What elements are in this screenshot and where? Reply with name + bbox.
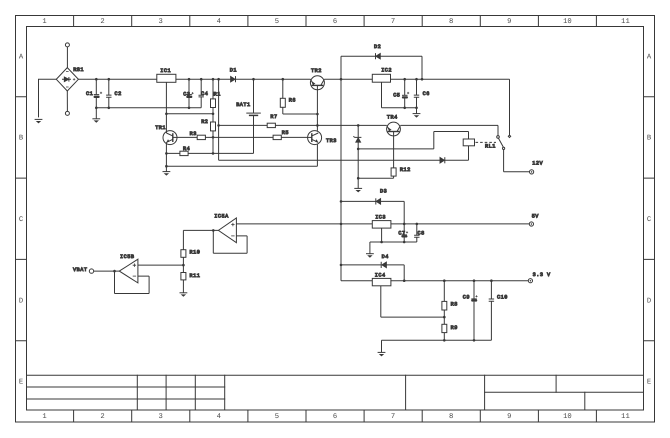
- svg-text:C9: C9: [463, 295, 470, 301]
- resistor R1: [211, 79, 216, 114]
- svg-text:R2: R2: [201, 119, 208, 125]
- wire: TR4 base to R12: [393, 136, 395, 168]
- wire: IC4 output rail to 3.3V terminal: [391, 279, 528, 282]
- wire: relay common to 12V terminal: [504, 150, 530, 172]
- svg-text:D3: D3: [380, 189, 387, 195]
- wire: TR4 rail (x218 tap to relay) with R7 inline: [275, 124, 498, 135]
- svg-text:R5: R5: [282, 130, 289, 136]
- wire: main vertical distribution (x=341): [340, 79, 343, 281]
- svg-text:C7: C7: [398, 230, 405, 236]
- svg-text:IC1: IC1: [160, 68, 171, 74]
- wire: R6 bottom to TR2 base: [283, 113, 319, 116]
- wire: IC5B output to VBAT terminal: [94, 270, 120, 272]
- svg-text:9: 9: [507, 413, 511, 421]
- wire: TR2 base line down to TR3 collector: [316, 90, 319, 131]
- capacitor C6: [414, 79, 419, 108]
- svg-text:C5: C5: [393, 92, 400, 98]
- svg-text:TR4: TR4: [387, 115, 398, 121]
- svg-text:C2: C2: [115, 91, 122, 97]
- svg-text:BAT1: BAT1: [236, 102, 250, 108]
- capacitor C5 (polarized): [402, 79, 409, 108]
- op-amp IC5A (buffer): [218, 218, 236, 243]
- resistor R5: [273, 135, 281, 139]
- capacitor C2: [106, 79, 111, 108]
- svg-text:11: 11: [621, 413, 630, 421]
- svg-text:R6: R6: [289, 97, 296, 103]
- svg-text:R7: R7: [270, 114, 277, 120]
- regulator IC2: [372, 74, 390, 82]
- svg-text:C8: C8: [418, 230, 425, 236]
- node: 3.3V output terminal: [528, 279, 532, 283]
- svg-text:C1: C1: [86, 91, 93, 97]
- wire: R12 bottom to zener ground line: [358, 177, 393, 179]
- svg-text:A: A: [19, 53, 24, 61]
- wire: switched line y=160 to relay diode: [219, 159, 440, 161]
- svg-text:R11: R11: [190, 273, 201, 279]
- svg-text:VBAT: VBAT: [73, 267, 87, 273]
- wire: IC3 output rail to 5V terminal: [391, 223, 529, 226]
- wire: IC5B feedback loop: [113, 270, 149, 294]
- ground (3.3V section): [378, 352, 386, 356]
- wire: R5 to TR3 base: [281, 136, 307, 138]
- diode D2 (bypass over IC2): [341, 53, 422, 79]
- ground (zener): [354, 188, 362, 192]
- wire: bridge left to ground: [39, 79, 57, 117]
- resistor R8: [442, 281, 447, 317]
- wire: IC2 adj pin to C5/C6 bottoms: [382, 82, 418, 109]
- svg-text:3: 3: [159, 18, 163, 26]
- transistor TR1: [163, 131, 177, 145]
- wire: vertical feed corner into IC4: [341, 280, 372, 282]
- ground (IC3): [366, 254, 374, 258]
- svg-text:R1: R1: [214, 91, 221, 97]
- svg-text:7: 7: [391, 413, 395, 421]
- svg-text:C6: C6: [423, 91, 430, 97]
- wire: IC4 adj pin to R8/R9 node: [381, 286, 446, 319]
- wire: TR1 collector up to IC1 adj node: [165, 114, 167, 133]
- node: 12V output terminal: [530, 170, 534, 174]
- transistor TR3: [308, 131, 322, 145]
- svg-text:D: D: [647, 297, 651, 305]
- diode D1: [231, 76, 236, 82]
- resistor R3: [197, 135, 205, 139]
- resistor R6: [280, 79, 285, 114]
- svg-text:9: 9: [507, 18, 511, 26]
- svg-text:E: E: [19, 379, 23, 387]
- svg-text:5: 5: [275, 413, 279, 421]
- regulator IC4: [372, 278, 391, 285]
- wire: IC1 adj pin down and right to R1/R2 node: [165, 82, 214, 115]
- ground (IC2 filter): [413, 114, 421, 118]
- svg-text:C4: C4: [201, 91, 208, 97]
- wire: IC5A output to R10: [183, 230, 218, 249]
- diode D4 (bypass over IC4): [341, 262, 404, 281]
- svg-text:4: 4: [217, 18, 221, 26]
- svg-text:RS1: RS1: [73, 67, 84, 73]
- svg-text:D2: D2: [374, 44, 381, 50]
- svg-text:IC2: IC2: [381, 68, 392, 74]
- svg-text:D: D: [19, 297, 23, 305]
- svg-text:12V: 12V: [532, 161, 543, 167]
- svg-text:E: E: [647, 379, 651, 387]
- wire: unregulated rail (RS1 to IC1) with junctions: [78, 78, 156, 81]
- svg-text:5V: 5V: [532, 214, 540, 220]
- wire: TR1 emitter to ground with junctions: [165, 142, 168, 171]
- svg-text:3: 3: [159, 413, 163, 421]
- wire: IC2 output to relay contact (12V switched): [391, 78, 510, 135]
- wire: R11 to ground: [182, 280, 184, 293]
- svg-text:B: B: [19, 135, 24, 143]
- svg-text:RL1: RL1: [485, 143, 496, 149]
- capacitor C4: [199, 79, 204, 108]
- resistor R4: [166, 151, 253, 155]
- op-amp IC5B (VBAT buffer): [119, 259, 138, 283]
- ground (TR1 emitter): [163, 172, 171, 176]
- capacitor C10: [489, 281, 494, 341]
- wire: IC3 input line (from IC5A buffer): [236, 223, 372, 225]
- wire: R10/R11 node to IC5B + input: [138, 257, 185, 272]
- svg-text:4: 4: [217, 413, 221, 421]
- resistor R7: [219, 123, 276, 127]
- diode (relay line): [440, 157, 445, 163]
- svg-text:2: 2: [100, 18, 104, 26]
- node: 5V output terminal: [529, 222, 533, 226]
- bridge rectifier RS1: [56, 68, 78, 91]
- svg-text:IC5B: IC5B: [120, 254, 134, 260]
- capacitor C1 (polarized): [94, 79, 103, 108]
- ground (C1): [92, 119, 100, 123]
- capacitor C9 (polarized): [471, 281, 477, 341]
- wire: R3 to R5 (through junctions): [205, 136, 273, 138]
- wire: 3.3V section ground rail: [382, 339, 492, 352]
- svg-text:C: C: [647, 216, 652, 224]
- svg-text:D1: D1: [230, 67, 237, 73]
- diode D3 (bypass over IC3): [341, 198, 404, 224]
- svg-text:IC4: IC4: [375, 273, 386, 279]
- battery BAT1: [246, 79, 260, 153]
- svg-text:1: 1: [42, 18, 46, 26]
- svg-text:5: 5: [275, 18, 279, 26]
- wire: cap ground rail (C1 to C4) with junctions: [95, 107, 201, 110]
- wire: rail TR2 to IC2 with junction: [324, 78, 372, 81]
- transistor TR2 (PNP pass): [310, 76, 324, 90]
- wire: diode to relay coil bottom: [445, 146, 469, 160]
- resistor R2: [211, 114, 216, 138]
- wire: emitter ground line to TR3 emitter: [166, 144, 317, 166]
- svg-text:R8: R8: [451, 302, 458, 308]
- ground (R11): [180, 293, 188, 297]
- svg-text:C10: C10: [497, 295, 508, 301]
- wire: C1 node down to ground: [95, 108, 97, 119]
- svg-text:8: 8: [449, 18, 453, 26]
- svg-text:R12: R12: [400, 167, 411, 173]
- svg-text:B: B: [647, 135, 652, 143]
- regulator IC1: [157, 74, 176, 82]
- svg-text:2: 2: [100, 413, 104, 421]
- svg-text:8: 8: [449, 413, 453, 421]
- svg-text:A: A: [647, 53, 652, 61]
- resistor R11: [181, 273, 186, 280]
- svg-text:R4: R4: [183, 146, 190, 152]
- svg-text:11: 11: [621, 18, 630, 26]
- svg-text:IC3: IC3: [375, 215, 386, 221]
- svg-text:10: 10: [563, 413, 572, 421]
- svg-text:TR3: TR3: [326, 138, 337, 144]
- capacitor C3 (polarized): [186, 79, 193, 108]
- wire: R2 bottom to R4 line: [212, 136, 215, 155]
- node: AC input terminal (top pad of RS1): [65, 43, 69, 47]
- capacitor C7 (polarized): [401, 224, 408, 242]
- svg-text:3.3 V: 3.3 V: [533, 272, 551, 278]
- transistor TR4 (PNP relay driver): [387, 122, 401, 136]
- capacitor C8: [414, 224, 419, 242]
- svg-text:6: 6: [333, 18, 337, 26]
- svg-text:6: 6: [333, 413, 337, 421]
- svg-text:R9: R9: [451, 325, 458, 331]
- wire: IC3 adj pin and cap bottoms to ground: [370, 228, 417, 254]
- wire: raw rail tap down (x=218.6) to switched line: [217, 79, 220, 160]
- svg-text:D4: D4: [382, 254, 389, 260]
- svg-text:10: 10: [563, 18, 572, 26]
- resistor R10: [181, 250, 186, 258]
- wire: rail IC1 to TR2 with junctions: [176, 78, 311, 81]
- regulator IC3: [372, 221, 391, 229]
- svg-text:R3: R3: [190, 131, 197, 137]
- relay switch contacts and armature: [497, 135, 511, 149]
- svg-text:C: C: [19, 216, 24, 224]
- svg-text:R10: R10: [190, 249, 201, 255]
- relay coil RL1: [358, 132, 496, 149]
- svg-text:7: 7: [391, 18, 395, 26]
- wire: TR1 base to R3: [177, 136, 197, 138]
- svg-text:TR1: TR1: [155, 125, 166, 131]
- wire: AC top terminal to bridge: [66, 47, 68, 68]
- svg-text:IC5A: IC5A: [214, 213, 229, 219]
- svg-text:TR2: TR2: [311, 68, 322, 74]
- ground (bridge input): [35, 119, 43, 123]
- node: AC input terminal (bottom pad of RS1): [65, 111, 69, 115]
- resistor R9: [442, 317, 447, 340]
- wire: IC5A feedback loop: [212, 229, 247, 253]
- svg-text:C3: C3: [183, 91, 190, 97]
- wire: bridge to bottom terminal: [66, 91, 68, 111]
- svg-text:1: 1: [42, 413, 46, 421]
- resistor R12: [391, 168, 396, 178]
- zener diode (TR4 emitter clamp): [353, 125, 361, 188]
- node: VBAT terminal: [89, 269, 93, 273]
- wire: C6 bottom to ground: [416, 108, 418, 114]
